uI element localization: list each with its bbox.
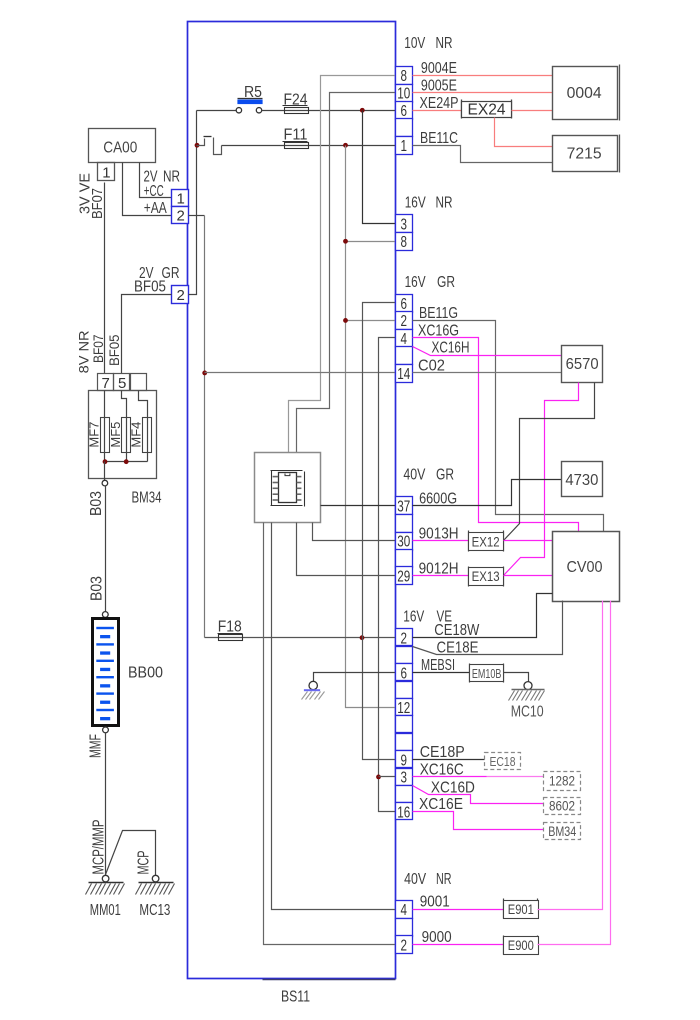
wire IC to pin29 row xyxy=(297,523,396,576)
connector EX12 xyxy=(468,531,470,552)
wire BF07 CA00 pin1 to BM34 pin 7 xyxy=(104,183,106,374)
svg-text:9001: 9001 xyxy=(420,894,450,911)
connector-break symbol on F11 wire xyxy=(197,139,205,146)
wire x204 vertical +AA to F18 xyxy=(204,216,206,638)
connector E900 xyxy=(503,936,505,955)
svg-text:40V: 40V xyxy=(404,871,426,888)
connector EM10B xyxy=(469,664,471,683)
wire IC to pin2 40V NR xyxy=(264,523,396,945)
ground symbol MC13 xyxy=(139,882,174,884)
svg-text:3: 3 xyxy=(401,770,408,787)
svg-text:+CC: +CC xyxy=(144,183,164,200)
wire E901 to CV00 xyxy=(538,601,603,910)
wire F18 row to pin2 16V VE xyxy=(205,637,396,639)
connector pins 10V NR (8,10,6,blank,1) xyxy=(396,67,413,85)
svg-text:2: 2 xyxy=(401,313,408,330)
svg-text:9: 9 xyxy=(401,752,408,769)
connector pins 16V NR (3,8) xyxy=(396,215,413,233)
svg-text:4: 4 xyxy=(401,331,408,348)
wire 9000 pin2 to E900 xyxy=(413,944,504,946)
svg-text:MC13: MC13 xyxy=(139,902,170,919)
svg-text:NR: NR xyxy=(436,871,452,888)
svg-text:6: 6 xyxy=(401,296,408,313)
component CV00 xyxy=(553,532,620,602)
fuse F18 body xyxy=(219,635,243,641)
svg-text:MCP/MMP: MCP/MMP xyxy=(90,820,107,875)
component 8602 (dashed) xyxy=(544,798,581,815)
svg-text:CE18E: CE18E xyxy=(437,639,479,656)
svg-text:BE11C: BE11C xyxy=(420,130,458,147)
connector EX13 xyxy=(468,567,470,587)
svg-text:6600G: 6600G xyxy=(419,490,457,507)
wire F11 row xyxy=(222,145,396,147)
svg-text:16: 16 xyxy=(397,805,410,822)
component 1282 (dashed) xyxy=(544,772,581,791)
ground terminal circle MC10 xyxy=(524,682,532,690)
svg-text:EX12: EX12 xyxy=(472,535,500,550)
wire R5 to F24 to pin6 row xyxy=(262,110,396,112)
connector pins 40V NR (4,blank,2) xyxy=(396,901,413,919)
svg-text:2: 2 xyxy=(401,938,408,955)
wire C02 inside xyxy=(205,372,396,374)
svg-text:CE18P: CE18P xyxy=(420,744,465,761)
svg-text:14: 14 xyxy=(397,366,410,383)
svg-text:XC16C: XC16C xyxy=(420,761,464,778)
wire pin10 to IC (via jog) xyxy=(297,93,396,453)
svg-text:2: 2 xyxy=(401,631,408,648)
ground terminal circle MC13 xyxy=(152,875,159,882)
svg-text:MF5: MF5 xyxy=(108,422,123,448)
IC chip notch xyxy=(285,474,290,476)
svg-text:30: 30 xyxy=(397,534,410,551)
svg-text:BF07: BF07 xyxy=(89,188,106,219)
component 0004 xyxy=(553,67,618,120)
wire CA00 to +AA xyxy=(123,163,172,216)
svg-text:MCP: MCP xyxy=(136,851,153,875)
junction dot C02 row xyxy=(202,371,207,376)
wire 9005E xyxy=(413,92,553,94)
relay R5 underline xyxy=(238,98,263,100)
svg-text:10V: 10V xyxy=(404,35,425,52)
svg-text:1: 1 xyxy=(102,165,110,182)
svg-text:MEBSI: MEBSI xyxy=(421,657,455,674)
svg-text:CE18W: CE18W xyxy=(434,622,480,639)
wire vertical F24-junction to pin 3 (16V NR) xyxy=(363,111,396,224)
svg-text:9005E: 9005E xyxy=(421,77,457,94)
svg-text:9013H: 9013H xyxy=(419,525,459,542)
svg-text:CV00: CV00 xyxy=(567,559,603,576)
svg-text:BS11: BS11 xyxy=(281,989,310,1006)
IC inner frame xyxy=(271,470,303,472)
wire B03 xyxy=(105,486,107,612)
svg-text:0004: 0004 xyxy=(567,85,602,102)
svg-text:NR: NR xyxy=(436,195,453,212)
wire MEBSI to EM10B xyxy=(413,672,470,674)
internal ground symbol (blue bar) xyxy=(304,689,320,691)
svg-text:E900: E900 xyxy=(508,938,534,953)
IC chip body xyxy=(279,473,297,503)
connector pins 40V GR (37,blank,30,blank,29) xyxy=(396,497,413,515)
component 6570 xyxy=(562,346,603,383)
junction dot MF7 output xyxy=(103,459,108,464)
wire fuse outputs join xyxy=(105,461,148,463)
wire 9013H pin30 to EX12 xyxy=(413,540,469,542)
component BM34 (dashed) xyxy=(544,823,581,840)
connector CA00 xyxy=(89,129,156,163)
wire BM34 output xyxy=(104,462,106,481)
svg-text:XC16E: XC16E xyxy=(419,796,463,813)
wire E900 to CV00 xyxy=(538,601,611,945)
internal ground terminal circle xyxy=(309,681,317,689)
svg-text:1: 1 xyxy=(177,190,185,207)
svg-text:MF7: MF7 xyxy=(87,422,102,448)
svg-text:XE24P: XE24P xyxy=(420,95,459,112)
wire CE18W xyxy=(413,594,553,638)
wire MEBSI to internal ground xyxy=(314,673,396,682)
wire R5 feed vertical xyxy=(189,111,197,295)
wire x378 branch to pin3 xyxy=(379,776,396,778)
wire BE11G xyxy=(413,321,604,532)
svg-text:9012H: 9012H xyxy=(419,560,459,577)
svg-text:MC10: MC10 xyxy=(511,704,544,721)
svg-text:MM01: MM01 xyxy=(90,902,121,919)
ground symbol MC10 xyxy=(512,689,545,691)
wire CE18P to EC18 xyxy=(413,759,485,761)
svg-text:BE11G: BE11G xyxy=(419,305,458,322)
svg-text:BM34: BM34 xyxy=(132,490,162,507)
wire XC16C to 1282 xyxy=(413,776,487,778)
svg-text:+AA: +AA xyxy=(144,200,167,217)
component EC18 (dashed) xyxy=(485,753,521,770)
svg-text:7215: 7215 xyxy=(567,146,602,163)
svg-text:MMF: MMF xyxy=(88,734,105,758)
connector E901 xyxy=(503,899,505,919)
wire XC16D to 8602 xyxy=(413,786,544,804)
BS11 bottom border right segment xyxy=(263,979,396,981)
wire x345 branch to pin8 16V NR xyxy=(346,241,396,243)
wire IC to pin4 40V NR xyxy=(272,523,396,910)
wire 9001 pin4 to E901 xyxy=(413,909,504,911)
BM34 pin 7 box xyxy=(98,374,114,391)
junction dot F11/x345 xyxy=(343,143,348,148)
svg-text:NR: NR xyxy=(163,169,180,186)
wire BF05 to BM34 pin 5 xyxy=(122,295,172,374)
wire 6570 to EX13 node (magenta) xyxy=(504,383,579,576)
svg-text:NR: NR xyxy=(436,35,453,52)
svg-text:EX24: EX24 xyxy=(468,101,506,118)
svg-text:BF05: BF05 xyxy=(106,334,122,366)
BM34 fusebox body xyxy=(89,391,157,479)
svg-text:5: 5 xyxy=(118,375,126,392)
svg-text:2: 2 xyxy=(177,287,185,304)
svg-text:1: 1 xyxy=(401,138,408,155)
svg-text:EX13: EX13 xyxy=(472,569,500,584)
svg-text:6: 6 xyxy=(401,665,408,682)
wire CA00 to +CC xyxy=(140,163,172,198)
fuse MF5 xyxy=(122,418,131,453)
wire +AA into BS11 xyxy=(189,215,205,217)
wire C02 xyxy=(413,372,562,374)
connector pins 16V VE (2..16) xyxy=(396,629,413,646)
connector pins 16V GR (6,2,4,blank,14) xyxy=(396,295,413,313)
connector pin 2 (BF05) on BS11 xyxy=(172,286,189,304)
svg-text:6: 6 xyxy=(401,103,408,120)
component 4730 xyxy=(562,462,603,497)
IC chip pins xyxy=(273,476,279,478)
svg-text:16V: 16V xyxy=(405,274,426,291)
wire pin8 to IC (via jog) xyxy=(289,76,396,453)
svg-text:7: 7 xyxy=(102,375,110,392)
wire XC16E to BM34 xyxy=(413,812,544,830)
battery bottom terminal circle xyxy=(103,727,109,733)
svg-text:3: 3 xyxy=(401,217,408,234)
wire XC16H xyxy=(413,347,562,356)
svg-text:12: 12 xyxy=(397,700,410,717)
svg-text:9004E: 9004E xyxy=(421,60,457,77)
wire x345 branch to pin2 16V GR xyxy=(346,320,396,322)
connector pin 1 (+CC) on BS11 xyxy=(172,190,189,207)
svg-text:XC16G: XC16G xyxy=(418,323,459,340)
connector pin 2 (+AA) on BS11 xyxy=(172,207,189,224)
wire MMF battery to ground xyxy=(105,733,107,876)
component 7215 xyxy=(553,136,618,172)
svg-text:6570: 6570 xyxy=(566,356,599,373)
BM34 pin 5 box xyxy=(114,374,130,391)
ground terminal circle MM01 xyxy=(102,875,109,882)
svg-text:MF4: MF4 xyxy=(129,422,144,448)
svg-text:BF07: BF07 xyxy=(90,334,106,363)
BM34 blank pin box xyxy=(131,374,147,391)
fuse F11 body xyxy=(285,143,309,149)
svg-text:1282: 1282 xyxy=(549,774,575,789)
connector EX24 xyxy=(461,100,463,119)
svg-text:4: 4 xyxy=(401,902,408,919)
svg-text:XC16H: XC16H xyxy=(432,340,470,357)
BS11 control-unit box xyxy=(188,22,396,979)
wire 9004E xyxy=(413,75,553,77)
wire EX13 to CV00 xyxy=(504,575,553,577)
svg-text:37: 37 xyxy=(397,499,410,516)
wire x345 vertical F11 to pin12 xyxy=(346,146,396,708)
battery BB00 xyxy=(93,619,119,726)
svg-text:10: 10 xyxy=(397,86,410,103)
wire MM01 to MC13 link xyxy=(106,831,156,876)
wire EX24 to 0004 xyxy=(512,110,553,112)
svg-text:CA00: CA00 xyxy=(103,140,137,157)
battery top terminal circle xyxy=(102,612,108,618)
BM34 output terminal circle xyxy=(102,480,108,486)
svg-text:9000: 9000 xyxy=(422,929,452,946)
wire IC to pin30 row xyxy=(313,523,396,541)
wire EM10B to MC10 ground xyxy=(504,673,529,682)
wire 9012H pin29 to EX13 xyxy=(413,575,469,577)
relay R5 contact circles xyxy=(236,108,241,113)
wire 6600G to 4730 xyxy=(413,480,562,506)
wire MF5 branch xyxy=(122,391,127,462)
svg-text:8602: 8602 xyxy=(549,799,575,814)
svg-text:GR: GR xyxy=(436,466,454,483)
fuse MF7 xyxy=(101,418,110,453)
junction dot F18/x362 xyxy=(360,635,365,640)
junction dot MF5 output xyxy=(124,459,129,464)
svg-text:B03: B03 xyxy=(89,576,106,601)
wire XE24P xyxy=(413,110,462,112)
junction dot F11 row at x197 xyxy=(195,143,200,148)
wire x378 vertical pin4 16V GR to pin16 xyxy=(379,338,396,812)
svg-text:GR: GR xyxy=(437,274,455,291)
wire IC to pin37 (6600G row) xyxy=(321,505,396,507)
fuse F24 body xyxy=(285,108,309,114)
wire x362 vertical pin6 16V GR to pin9 xyxy=(363,303,396,760)
svg-text:EM10B: EM10B xyxy=(472,666,502,681)
wire BE11C xyxy=(413,146,553,163)
svg-text:EC18: EC18 xyxy=(490,754,516,769)
wire MF7 branch xyxy=(104,391,106,462)
svg-text:29: 29 xyxy=(397,569,410,586)
svg-text:BM34: BM34 xyxy=(548,824,576,839)
wire R5 row left segment xyxy=(197,110,237,112)
wire 6570 to EX12 (dark) xyxy=(504,383,595,541)
svg-text:16V: 16V xyxy=(405,195,426,212)
wire EX24 to 7215 xyxy=(495,118,553,147)
ground symbol MM01 xyxy=(89,882,124,884)
svg-text:8: 8 xyxy=(401,68,408,85)
relay R5 blue bar xyxy=(237,100,262,105)
svg-text:16V: 16V xyxy=(403,608,424,625)
svg-text:4730: 4730 xyxy=(565,472,598,489)
svg-text:8: 8 xyxy=(401,234,408,251)
svg-text:2: 2 xyxy=(177,208,185,225)
wire MF4 branch xyxy=(139,391,148,462)
junction dot pin6 row xyxy=(360,108,365,113)
junction dot pin3 16V VE row xyxy=(376,775,381,780)
svg-text:40V: 40V xyxy=(403,466,425,483)
svg-text:C02: C02 xyxy=(418,358,445,375)
wire EX12 to CV00 xyxy=(504,540,553,542)
wire XC16G xyxy=(413,338,579,532)
svg-text:XC16D: XC16D xyxy=(431,780,475,797)
fuse MF4 xyxy=(143,418,152,453)
wire CE18E xyxy=(413,601,563,655)
svg-text:B03: B03 xyxy=(88,491,105,516)
CA00 pin 1 box xyxy=(98,163,115,181)
svg-text:BB00: BB00 xyxy=(128,665,163,682)
svg-text:BF05: BF05 xyxy=(134,279,166,296)
IC module box xyxy=(255,453,321,523)
svg-text:E901: E901 xyxy=(508,902,534,917)
